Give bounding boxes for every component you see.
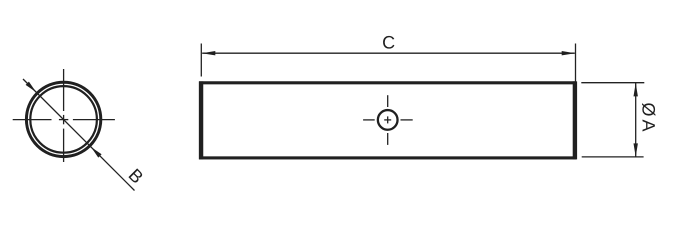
right end edge (thick) xyxy=(573,81,577,159)
extension line bottom (dimension A) xyxy=(582,156,644,158)
hole center line segments xyxy=(363,95,413,145)
vertical center line (end view) xyxy=(63,69,65,162)
hole circle (side view center hole) xyxy=(378,110,398,130)
dimension line A xyxy=(635,83,637,157)
arrowhead C left xyxy=(202,51,216,55)
arrowhead A top xyxy=(634,83,638,97)
horizontal center line (end view) xyxy=(13,119,115,121)
extension line top (dimension A) xyxy=(581,82,644,84)
center cross (end view) xyxy=(59,115,68,124)
extension line right (dimension C) xyxy=(575,44,577,83)
dimension line C xyxy=(202,52,575,54)
svg-text:C: C xyxy=(382,33,395,53)
inner circle (end view, bore) xyxy=(30,86,97,153)
left end edge (thick) xyxy=(199,81,203,159)
arrowhead C right xyxy=(562,51,576,55)
arrowhead B lower-right (points to circle) xyxy=(91,147,102,158)
rectangle (side view body) xyxy=(201,83,575,158)
dimension line B (diagonal through end view) xyxy=(23,79,135,191)
arrowhead A bottom xyxy=(634,143,638,157)
arrowhead B upper-left (points to circle) xyxy=(26,82,36,93)
svg-text:ØA: ØA xyxy=(638,102,658,134)
hole center cross xyxy=(384,116,391,123)
extension line left (dimension C) xyxy=(200,44,202,77)
outer circle (end view, outer diameter) xyxy=(26,82,100,156)
